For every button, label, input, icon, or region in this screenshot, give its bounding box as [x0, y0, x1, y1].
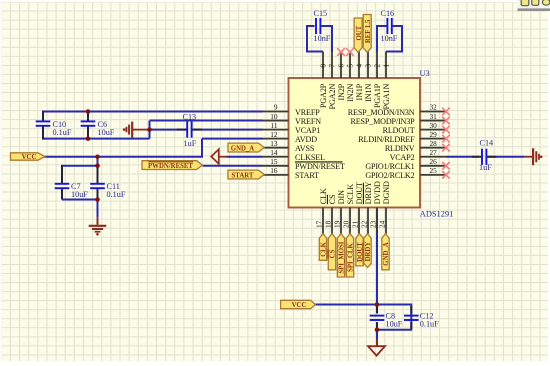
svg-text:ADS1291: ADS1291	[420, 209, 454, 218]
wire C10 leads	[42, 111, 44, 122]
pin 30 RLDOUT	[383, 121, 447, 135]
svg-text:VCAP1: VCAP1	[295, 126, 320, 135]
svg-text:10nF: 10nF	[381, 34, 398, 43]
svg-text:0.1uF: 0.1uF	[53, 128, 72, 137]
svg-text:VREFN: VREFN	[295, 117, 321, 126]
pin 29 RLDIN/RLDREF	[358, 130, 446, 144]
capacitor C13	[183, 113, 197, 148]
svg-text:VCC: VCC	[22, 154, 37, 161]
capacitor C12	[404, 312, 439, 329]
power ground triangle bottom	[368, 346, 385, 355]
svg-text:0.1uF: 0.1uF	[107, 190, 126, 199]
wire C10/C6 bottom rail	[43, 138, 150, 140]
svg-text:C15: C15	[314, 9, 328, 18]
port DRDY (pin 22)	[364, 234, 371, 268]
svg-text:IN2P: IN2P	[337, 83, 346, 100]
svg-text:31: 31	[430, 112, 438, 121]
port REF 1.5 (top, on pin 3)	[363, 15, 371, 53]
svg-text:DGND: DGND	[382, 181, 391, 204]
svg-text:19: 19	[332, 220, 341, 228]
pin 1 PGA1N	[382, 52, 391, 110]
wire C16 right	[386, 26, 402, 52]
op-amp / ADC U3 body	[289, 78, 421, 208]
svg-text:PWDN/RESET: PWDN/RESET	[148, 163, 193, 170]
port SPI_CLK (pin 20)	[346, 234, 353, 277]
wire VCAP1 row11 right of C13	[193, 129, 263, 131]
wire C7/C11 bottom rail	[62, 199, 98, 201]
port CLK (pin 17)	[319, 234, 326, 261]
svg-text:32: 32	[430, 103, 438, 112]
no-ERC pin 29	[442, 135, 450, 143]
svg-text:IN1P: IN1P	[355, 83, 364, 100]
port START	[228, 170, 264, 179]
pin 20 SCLK	[341, 184, 355, 234]
pin 7 PGA2N	[328, 52, 337, 110]
capacitor C11	[90, 182, 126, 199]
pin 8 PGA2P	[319, 52, 328, 109]
pin 23 DVDD	[368, 181, 382, 234]
capacitor C10	[36, 120, 72, 137]
svg-text:18: 18	[323, 220, 332, 228]
svg-text:CLKSEL: CLKSEL	[295, 153, 325, 162]
svg-text:C14: C14	[480, 138, 494, 147]
svg-text:SCLK: SCLK	[346, 184, 355, 205]
svg-text:0.1uF: 0.1uF	[420, 319, 439, 328]
svg-text:SPI_CLK: SPI_CLK	[348, 243, 355, 272]
wire C8/C12 box	[377, 305, 411, 330]
wire C15 right	[322, 26, 333, 52]
pin 17 CLK	[314, 188, 328, 234]
ground under C7/C11	[89, 226, 107, 236]
svg-text:VREFP: VREFP	[295, 108, 320, 117]
pin 27 VCAP2	[390, 148, 447, 162]
svg-text:PGA2N: PGA2N	[328, 84, 337, 110]
capacitor C15	[314, 9, 331, 43]
no-ERC pin 5	[346, 48, 354, 56]
ground GND_A left (analog)	[123, 122, 150, 138]
no-ERC pin 6	[337, 48, 345, 56]
svg-text:START: START	[232, 173, 254, 180]
svg-text:15: 15	[270, 157, 278, 166]
port VCC bottom	[281, 300, 316, 308]
wire AVDD row12	[202, 138, 263, 140]
wire C15 left	[307, 26, 323, 52]
port VCC left	[11, 153, 46, 160]
wire C7 leads	[61, 165, 63, 184]
pin 10 VREFN	[263, 112, 322, 126]
pin 21 DOUT	[350, 182, 364, 234]
svg-text:GND_A: GND_A	[231, 146, 255, 153]
svg-text:6: 6	[337, 64, 346, 68]
svg-text:CS: CS	[328, 194, 337, 204]
svg-text:C13: C13	[183, 113, 197, 122]
svg-text:DRDY: DRDY	[365, 242, 372, 262]
svg-text:10uF: 10uF	[386, 319, 403, 328]
svg-text:11: 11	[270, 121, 277, 130]
pin 14 CLKSEL	[263, 148, 326, 162]
ground right of C14	[525, 148, 543, 165]
svg-text:9: 9	[274, 103, 278, 112]
svg-text:DVDD: DVDD	[373, 181, 382, 204]
svg-text:1uF: 1uF	[184, 139, 197, 148]
pin 11 VCAP1	[263, 121, 321, 135]
port GND_A (pin 24)	[382, 234, 389, 270]
svg-text:PWDN/RESET: PWDN/RESET	[295, 162, 345, 171]
svg-text:AVSS: AVSS	[295, 144, 314, 153]
svg-text:17: 17	[314, 220, 323, 228]
wire DVDD vertical	[376, 208, 378, 314]
pin 9 VREFP	[263, 103, 321, 117]
pin 2 PGA1P	[373, 52, 382, 109]
svg-text:30: 30	[430, 121, 438, 130]
clksel input marker	[211, 149, 219, 164]
svg-text:3: 3	[364, 64, 373, 68]
no-ERC pin 26	[442, 162, 450, 170]
svg-text:RLDINV: RLDINV	[385, 144, 415, 153]
wire VCAP2 pin27 to C14	[447, 156, 480, 158]
port DOUT (pin 21)	[356, 234, 363, 266]
pin 6 IN2P	[337, 52, 346, 101]
svg-text:START: START	[295, 171, 319, 180]
no-ERC pin 31	[442, 117, 450, 125]
svg-text:IN1N: IN1N	[364, 84, 373, 102]
wire C11 leads	[97, 166, 99, 184]
svg-text:SPI_MOSI: SPI_MOSI	[339, 241, 346, 273]
pin 4 IN1P	[355, 52, 364, 101]
pin 3 IN1N	[364, 52, 373, 102]
svg-text:26: 26	[430, 157, 438, 166]
capacitor C16	[381, 9, 398, 43]
wire VCAP1 row11 left of C13	[150, 129, 187, 131]
svg-text:U3: U3	[420, 69, 430, 78]
svg-text:16: 16	[270, 166, 278, 175]
pin 15 PWDN/RESET	[263, 157, 345, 171]
svg-text:CS: CS	[330, 249, 337, 258]
svg-text:C16: C16	[381, 9, 395, 18]
pin 22 DRDY	[359, 181, 373, 233]
wire VCC rail to AVDD jog	[44, 139, 202, 157]
pin 19 DIN	[332, 190, 346, 234]
svg-text:CLK: CLK	[319, 188, 328, 204]
wire C12 leads	[410, 306, 412, 313]
pin 16 START	[263, 166, 320, 180]
svg-text:DIN: DIN	[337, 190, 346, 204]
wire PWDN row15	[203, 165, 263, 167]
pin 13 AVSS	[263, 139, 315, 153]
svg-text:GPIO1/RCLK1: GPIO1/RCLK1	[365, 162, 414, 171]
svg-text:10nF: 10nF	[314, 34, 331, 43]
svg-text:VCAP2: VCAP2	[390, 153, 415, 162]
capacitor C8	[370, 312, 403, 329]
svg-text:23: 23	[368, 220, 377, 228]
svg-text:PGA1N: PGA1N	[382, 84, 391, 110]
svg-text:2: 2	[373, 64, 382, 68]
svg-text:DOUT: DOUT	[355, 182, 364, 204]
capacitor C6	[81, 120, 115, 137]
svg-text:10uF: 10uF	[98, 128, 115, 137]
wire C16 left	[377, 26, 387, 52]
no-ERC pin 32	[442, 108, 450, 116]
svg-text:27: 27	[430, 148, 438, 157]
svg-text:GND_A: GND_A	[383, 242, 390, 266]
svg-text:GPIO2/RCLK2: GPIO2/RCLK2	[365, 171, 414, 180]
svg-text:OUT: OUT	[356, 25, 363, 40]
pin 5 IN2N	[346, 52, 355, 102]
wire VREFN rail row10	[150, 120, 263, 122]
wire VREFP rail row9	[43, 111, 263, 113]
svg-text:7: 7	[328, 64, 337, 68]
svg-text:1uF: 1uF	[479, 163, 492, 172]
junction dots	[86, 109, 91, 114]
no-ERC pin 28	[442, 144, 450, 152]
port CS (pin 18)	[328, 234, 335, 270]
svg-text:29: 29	[430, 130, 438, 139]
pin 12 AVDD	[263, 130, 318, 144]
port GND_A left	[228, 143, 264, 152]
svg-text:10: 10	[270, 112, 278, 121]
port SPI_MOSI (pin 19)	[337, 234, 344, 277]
svg-text:1: 1	[382, 64, 391, 68]
pin 32 RESP_MODN/IN3N	[348, 103, 447, 117]
pin 18 CS	[323, 194, 337, 233]
capacitor C7	[55, 182, 89, 199]
svg-text:PGA2P: PGA2P	[319, 83, 328, 108]
svg-text:CLK: CLK	[321, 241, 328, 256]
port OUT (top, on pin 4)	[354, 18, 362, 52]
svg-text:VCC: VCC	[292, 302, 307, 309]
svg-text:21: 21	[350, 220, 359, 228]
svg-text:13: 13	[270, 139, 278, 148]
svg-text:20: 20	[341, 220, 350, 228]
wire to power ground	[376, 330, 378, 340]
pin 24 DGND	[377, 181, 391, 234]
svg-text:4: 4	[355, 64, 364, 68]
svg-text:28: 28	[430, 139, 438, 148]
wire VCC drop to C7/C11	[97, 157, 99, 166]
svg-text:RESP_MODP/IN3P: RESP_MODP/IN3P	[350, 117, 415, 126]
svg-text:14: 14	[270, 148, 278, 157]
no-ERC pin 30	[442, 126, 450, 134]
no-ERC pin 25	[442, 171, 450, 179]
wire to analog ground	[97, 200, 99, 218]
svg-text:REF 1.5: REF 1.5	[365, 19, 372, 43]
wire vertical x149.5	[149, 121, 151, 139]
svg-text:RLDOUT: RLDOUT	[383, 126, 415, 135]
pin 28 RLDINV	[385, 139, 447, 153]
svg-text:PGA1P: PGA1P	[373, 83, 382, 108]
capacitor C14	[479, 138, 493, 172]
wire VCC bottom rail	[315, 304, 377, 306]
wire C6 leads	[87, 112, 89, 122]
svg-text:25: 25	[430, 166, 438, 175]
pin 26 GPIO1/RCLK1	[365, 157, 446, 171]
svg-text:IN2N: IN2N	[346, 84, 355, 102]
port PWDN/RESET	[142, 161, 202, 170]
svg-text:AVDD: AVDD	[295, 135, 317, 144]
svg-text:10uF: 10uF	[71, 190, 88, 199]
svg-text:24: 24	[377, 220, 386, 228]
svg-text:5: 5	[346, 64, 355, 68]
pin 25 GPIO2/RCLK2	[365, 166, 446, 180]
svg-text:RLDIN/RLDREF: RLDIN/RLDREF	[358, 135, 415, 144]
svg-text:8: 8	[319, 64, 328, 68]
svg-text:12: 12	[270, 130, 278, 139]
wire C8 leads	[376, 306, 378, 313]
svg-text:DRDY: DRDY	[364, 181, 373, 204]
pin 31 RESP_MODP/IN3P	[350, 112, 446, 126]
svg-text:22: 22	[359, 220, 368, 228]
